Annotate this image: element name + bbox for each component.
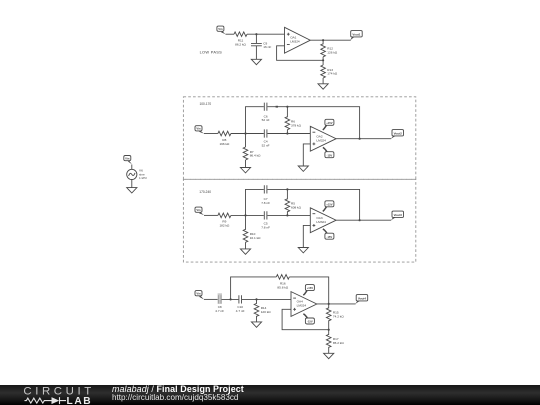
wire C6 to output node	[267, 107, 359, 139]
wire top branch to C6	[246, 107, 264, 134]
wire OA2 + input to ground	[303, 144, 310, 166]
ground (R14)	[251, 322, 261, 327]
capacitor C8 (highlighted)	[218, 293, 222, 304]
resistor R13	[322, 60, 324, 65]
wire C9 to ground	[255, 46, 257, 60]
svg-text:52 nF: 52 nF	[262, 144, 270, 148]
svg-text:Vin: Vin	[196, 292, 201, 296]
capacitor C9	[251, 43, 262, 45]
resistor R6	[286, 107, 288, 118]
node flag Vin (box2)	[195, 207, 204, 215]
svg-text:-15V: -15V	[327, 235, 333, 239]
svg-text:100-170: 100-170	[200, 102, 212, 106]
flag +15V (OA2)	[323, 119, 334, 130]
svg-text:+15V: +15V	[326, 202, 333, 206]
node junction feedback/output box2	[359, 219, 361, 221]
capacitor C5	[264, 211, 267, 219]
svg-text:120 kΩ: 120 kΩ	[261, 310, 272, 314]
wire R16 to output node	[289, 277, 328, 304]
dashed box 170-240	[183, 179, 415, 262]
wire C7 to output node	[267, 189, 359, 220]
resistor R15	[328, 304, 330, 308]
wire OA3 output	[336, 219, 391, 221]
op-amp OA2	[310, 126, 336, 151]
node junction C9 tap	[255, 33, 257, 35]
flag +15V (OA4)	[303, 285, 314, 296]
svg-text:608 kΩ: 608 kΩ	[291, 206, 302, 210]
node junction R6 top	[286, 106, 288, 108]
flag -15V (OA4)	[303, 314, 314, 324]
svg-text:LM324: LM324	[290, 40, 300, 44]
wire R8 to C4	[231, 133, 264, 135]
wire OA2 output	[336, 138, 391, 140]
wire C5 to OA3	[267, 214, 310, 216]
svg-text:Vout1: Vout1	[352, 32, 360, 36]
svg-text:Vout3: Vout3	[394, 213, 402, 217]
ground (R13)	[318, 84, 328, 89]
svg-text:7.8 nF: 7.8 nF	[261, 226, 270, 230]
op-amp OA1	[285, 27, 311, 53]
ground (C9)	[251, 59, 261, 64]
wire Vin to C8	[204, 298, 218, 300]
wire C10 to OA4	[242, 298, 291, 300]
svg-text:86.4 kΩ: 86.4 kΩ	[250, 154, 261, 158]
svg-text:LM324: LM324	[316, 138, 326, 142]
node junction R6 bottom	[286, 132, 288, 134]
wire OA1 feedback to divider	[277, 46, 324, 61]
wire OA1 output	[310, 39, 351, 41]
node junction feedback/output box1	[359, 138, 361, 140]
wire R9 to C5	[231, 214, 264, 216]
node junction box1 input	[244, 132, 246, 134]
svg-text:4.7 nF: 4.7 nF	[215, 309, 224, 313]
wire R11 to op-amp	[247, 33, 285, 35]
CircuitLab logo	[0, 385, 120, 405]
node junction R15/R17	[328, 329, 330, 331]
svg-text:+15V: +15V	[307, 286, 314, 290]
node flag Vout1	[350, 31, 362, 40]
wire C8 to C10	[222, 298, 239, 300]
wire flag to source V6	[131, 165, 133, 170]
wire down to C9	[255, 34, 257, 43]
resistor R11	[234, 32, 247, 37]
wire feedback branch to R16	[231, 277, 277, 300]
resistor R7	[245, 134, 247, 148]
node flag Vout3	[391, 211, 404, 220]
node flag Vin (box1)	[195, 126, 204, 134]
wire Vin to R9	[204, 214, 218, 216]
svg-text:7.8 nF: 7.8 nF	[261, 201, 270, 205]
voltage source V6	[127, 168, 148, 180]
svg-text:Vout4: Vout4	[358, 296, 366, 300]
resistor R12	[322, 40, 324, 44]
wire Vin to R8	[204, 133, 218, 135]
svg-text:Vout2: Vout2	[394, 131, 402, 135]
svg-text:16.1 kΩ: 16.1 kΩ	[250, 236, 261, 240]
resistor R5	[286, 189, 288, 199]
resistor R16	[276, 275, 289, 280]
svg-text:74.2 kΩ: 74.2 kΩ	[333, 315, 344, 319]
op-amp OA3	[310, 208, 336, 233]
svg-text:170-240: 170-240	[199, 190, 211, 194]
wire OA4 output	[317, 303, 356, 305]
resistor R10	[245, 215, 247, 229]
svg-text:-15V: -15V	[327, 153, 333, 157]
op-amp OA4	[291, 292, 317, 317]
node flag Vin (stage1)	[217, 26, 226, 34]
wire C4 to OA2	[267, 133, 310, 135]
svg-text:85.2 kΩ: 85.2 kΩ	[333, 341, 344, 345]
node junction R5 top	[286, 188, 288, 190]
node junction box2 input	[244, 214, 246, 216]
node junction R15 top	[328, 303, 330, 305]
svg-text:Vin: Vin	[218, 27, 223, 31]
wire overlap mark	[276, 106, 278, 108]
svg-text:LAB: LAB	[67, 396, 93, 405]
flag +15V (OA3)	[323, 201, 334, 212]
svg-text:Vin: Vin	[196, 208, 201, 212]
svg-text:LOW PASS: LOW PASS	[200, 50, 223, 55]
node flag Vin (source)	[124, 156, 132, 165]
capacitor C10	[239, 295, 242, 303]
resistor R9	[218, 213, 231, 218]
node junction output R12	[322, 39, 324, 41]
ground (V6)	[127, 188, 137, 193]
flag -15V (OA2)	[323, 147, 334, 157]
svg-text:86.2 kΩ: 86.2 kΩ	[235, 43, 246, 47]
svg-text:174 kΩ: 174 kΩ	[327, 72, 338, 76]
capacitor C7	[264, 185, 267, 193]
ground (OA3 +)	[298, 248, 308, 253]
wire OA4 + input loop	[282, 309, 329, 329]
svg-text:52 nF: 52 nF	[262, 118, 270, 122]
ground (R7)	[240, 168, 250, 173]
ground (R17)	[324, 353, 334, 358]
capacitor C6	[264, 103, 267, 111]
svg-text:LM324: LM324	[316, 220, 326, 224]
svg-text:Vin: Vin	[196, 127, 201, 131]
wire top branch to C7	[246, 189, 264, 215]
svg-text:182 kΩ: 182 kΩ	[219, 223, 230, 227]
wire Vin to R11	[226, 33, 235, 35]
node flag Vout2	[391, 130, 404, 139]
node junction divider	[322, 59, 324, 61]
node flag Vout4	[355, 295, 367, 304]
logo resistor-diode glyph	[25, 397, 67, 404]
ground (OA2 +)	[298, 166, 308, 171]
svg-text:+15V: +15V	[326, 121, 333, 125]
ground (R10)	[240, 249, 250, 254]
svg-text:LM324: LM324	[297, 304, 307, 308]
wire V6 to ground	[131, 180, 133, 188]
svg-text:126 kΩ: 126 kΩ	[327, 51, 338, 55]
svg-text:196 kΩ: 196 kΩ	[219, 142, 230, 146]
svg-text:85.8 kΩ: 85.8 kΩ	[277, 285, 288, 289]
node junction feedback tap	[230, 298, 232, 300]
node flag Vin (bottom stage)	[195, 291, 204, 300]
svg-text:16 nF: 16 nF	[263, 45, 271, 49]
svg-text:4.7 nF: 4.7 nF	[236, 309, 245, 313]
capacitor C4	[264, 129, 267, 137]
svg-text:Vin: Vin	[125, 157, 130, 161]
node junction R14 tap	[255, 298, 257, 300]
dashed box 100-170	[183, 97, 415, 180]
svg-text:1 kHz: 1 kHz	[139, 176, 147, 180]
footer title text	[112, 385, 244, 404]
resistor R17	[328, 330, 330, 335]
svg-text:378 kΩ: 378 kΩ	[291, 123, 302, 127]
svg-text:-15V: -15V	[307, 320, 313, 324]
resistor R8	[218, 131, 231, 136]
resistor R14	[256, 299, 258, 304]
wire OA3 + input to ground	[303, 225, 310, 247]
node junction R5 bottom	[286, 214, 288, 216]
flag -15V (OA3)	[323, 229, 334, 239]
